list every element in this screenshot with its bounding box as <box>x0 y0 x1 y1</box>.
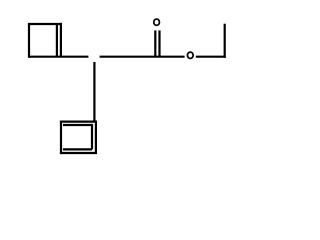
bond: CH2 up to CH3 <box>224 24 226 58</box>
bond: junction carbon down to cyclobutadiene ring <box>93 62 95 122</box>
cyclobutadiene ring top edge outer line <box>60 120 97 122</box>
bond: ester oxygen to CH2 <box>196 56 226 58</box>
bond: ring bottom edge continuing to junction carbon <box>29 56 88 58</box>
carbonyl C=O double bond left line <box>154 30 156 56</box>
cyclobutadiene ring top double bond inner line <box>63 124 92 126</box>
atom label O (ester oxygen) <box>187 52 193 58</box>
cyclobutadiene ring bottom edge outer line <box>60 152 97 154</box>
cyclobutene ring left edge <box>28 24 30 58</box>
cyclobutene ring top edge <box>28 23 62 25</box>
atom label O (carbonyl oxygen) <box>154 19 160 25</box>
cyclobutene ring double bond inner line <box>56 25 58 57</box>
cyclobutadiene ring right double bond inner line <box>91 124 93 149</box>
cyclobutene ring right edge (double bond outer line) <box>60 23 62 57</box>
cyclobutadiene ring right edge outer line <box>95 122 97 153</box>
cyclobutadiene ring left edge <box>60 121 62 155</box>
bond: junction carbon to carbonyl carbon and ester oxygen <box>100 56 185 58</box>
cyclobutadiene ring bottom double bond inner line <box>63 148 92 150</box>
carbonyl C=O double bond right line <box>158 30 160 56</box>
